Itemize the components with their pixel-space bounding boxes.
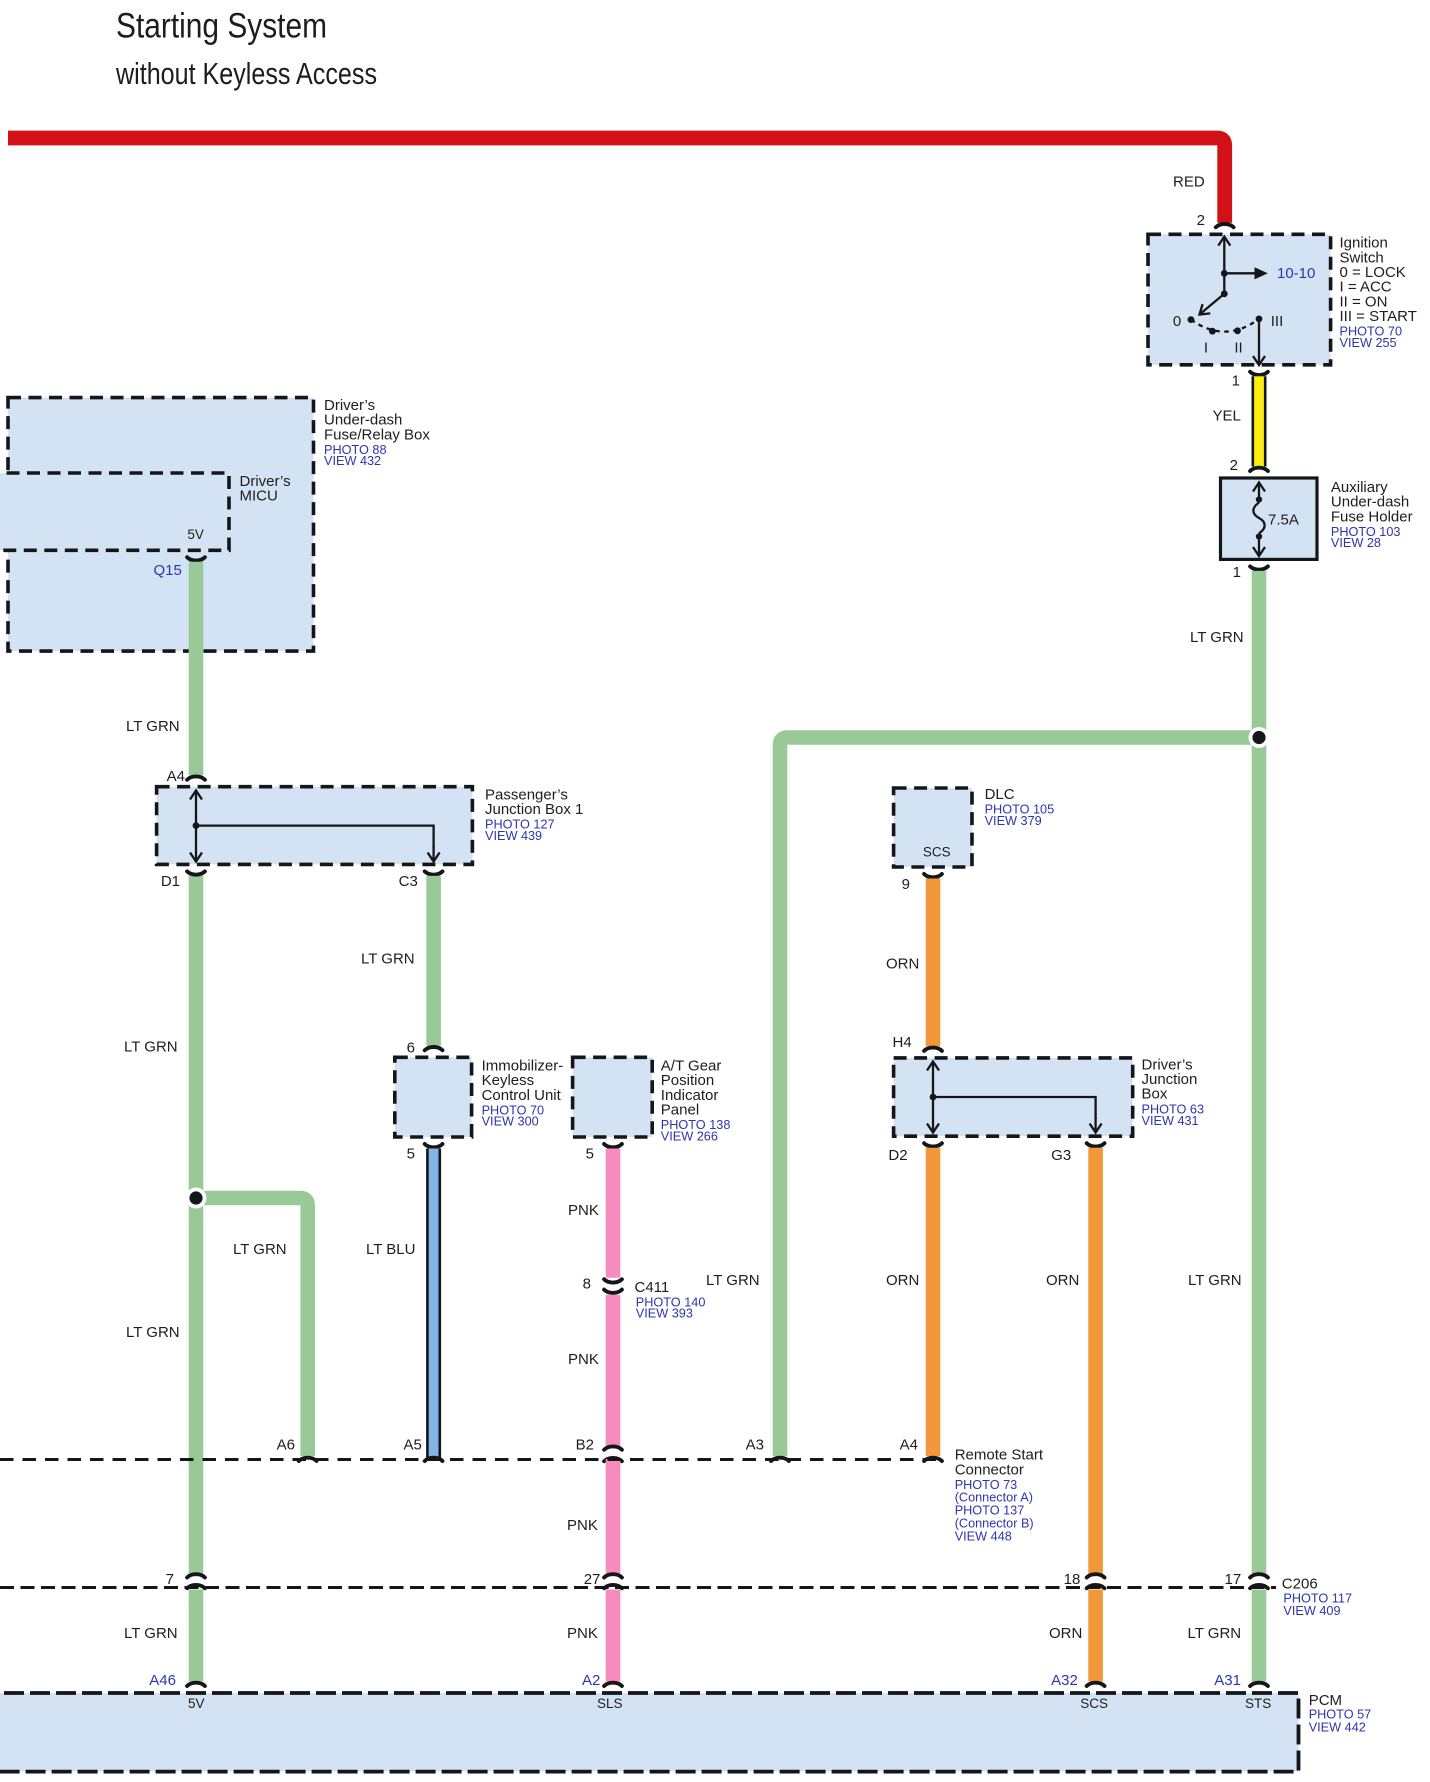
- svg-text:A5: A5: [403, 1437, 421, 1454]
- svg-text:A6: A6: [277, 1437, 295, 1454]
- passenger's junction box 1: [157, 787, 473, 865]
- connector bracket H4: [924, 1048, 942, 1051]
- driver's MICU box: [0, 473, 229, 550]
- connector bracket pin 9: [924, 874, 942, 877]
- svg-text:A4: A4: [167, 768, 185, 785]
- svg-text:18: 18: [1064, 1571, 1081, 1588]
- svg-text:LT BLU: LT BLU: [366, 1241, 415, 1258]
- wire RED battery feed: [8, 138, 1225, 223]
- A/T gear caption: [661, 1058, 731, 1144]
- position 0 contact: [1188, 316, 1195, 323]
- svg-text:C3: C3: [399, 873, 418, 890]
- wire LT GRN branch to A6: [196, 1198, 308, 1456]
- svg-text:SLS: SLS: [597, 1696, 623, 1711]
- svg-text:LT GRN: LT GRN: [706, 1272, 760, 1289]
- svg-text:YEL: YEL: [1213, 407, 1241, 424]
- connector B2 lower bracket: [604, 1458, 622, 1461]
- node: [1221, 290, 1228, 297]
- svg-text:6: 6: [407, 1040, 415, 1057]
- wire to pin 1: [1258, 319, 1260, 365]
- svg-text:G3: G3: [1051, 1147, 1071, 1164]
- fuse/relay box caption: [324, 397, 430, 468]
- connector bracket A31: [1250, 1683, 1268, 1686]
- svg-text:LT GRN: LT GRN: [1190, 629, 1244, 646]
- connector bracket pin 6: [425, 1047, 443, 1050]
- wire ORN (G3 to 18): [1088, 1148, 1103, 1574]
- svg-text:H4: H4: [893, 1034, 912, 1051]
- svg-text:PNK: PNK: [568, 1202, 599, 1219]
- connector bracket A4 remote: [924, 1458, 942, 1461]
- wire LT GRN (D1 to C206 pin 7): [189, 876, 204, 1574]
- connector bracket C3: [425, 871, 443, 874]
- auxiliary under-dash fuse holder box: [1221, 478, 1318, 559]
- svg-text:PNK: PNK: [567, 1625, 598, 1642]
- svg-text:ORN: ORN: [1049, 1625, 1082, 1642]
- connector bracket pin 1 fuse: [1250, 566, 1268, 569]
- svg-text:SCS: SCS: [1080, 1696, 1108, 1711]
- wire PNK (27 to A2): [606, 1590, 621, 1682]
- connector pin 18 upper bracket: [1087, 1574, 1105, 1577]
- svg-text:DLC: DLC: [985, 786, 1015, 803]
- svg-text:LT GRN: LT GRN: [124, 1039, 178, 1056]
- wire YEL: [1253, 376, 1265, 466]
- bus wire to C3: [196, 826, 434, 848]
- bus wire vertical: [195, 791, 197, 826]
- position III contact: [1256, 316, 1263, 323]
- svg-text:5V: 5V: [188, 1696, 205, 1711]
- svg-text:LT GRN: LT GRN: [124, 1625, 178, 1642]
- svg-text:PHOTO 137: PHOTO 137: [955, 1504, 1025, 1518]
- svg-text:VIEW 432: VIEW 432: [324, 454, 381, 468]
- svg-text:A46: A46: [149, 1672, 176, 1689]
- svg-text:Panel: Panel: [661, 1102, 699, 1119]
- fuse holder caption: [1331, 479, 1413, 550]
- wire ORN (DLC to H4): [926, 879, 941, 1047]
- MICU caption: [240, 473, 291, 505]
- bus wire to G3: [933, 1097, 1096, 1119]
- connector C411 lower bracket: [604, 1290, 622, 1293]
- svg-text:7: 7: [166, 1571, 174, 1588]
- svg-text:PNK: PNK: [567, 1517, 598, 1534]
- connector pin 7 upper bracket: [187, 1574, 205, 1577]
- connector bracket D2: [924, 1143, 942, 1146]
- svg-text:Fuse Holder: Fuse Holder: [1331, 508, 1413, 525]
- svg-text:VIEW 409: VIEW 409: [1283, 1604, 1340, 1618]
- svg-text:III = START: III = START: [1340, 308, 1417, 325]
- connector bracket A5: [425, 1458, 443, 1461]
- svg-text:Control Unit: Control Unit: [482, 1087, 562, 1104]
- svg-text:9: 9: [902, 876, 910, 893]
- A/T gear position indicator panel box: [573, 1057, 653, 1137]
- svg-text:PCM: PCM: [1309, 1692, 1342, 1709]
- svg-text:D1: D1: [161, 873, 180, 890]
- connector pin 17 upper bracket: [1250, 1574, 1268, 1577]
- node: [1221, 270, 1228, 277]
- svg-text:(Connector B): (Connector B): [955, 1517, 1034, 1531]
- svg-text:MICU: MICU: [240, 488, 278, 505]
- node: [193, 822, 200, 829]
- wire LT GRN (7 to A46): [189, 1590, 204, 1682]
- connector bracket pin 2 fuse: [1250, 468, 1268, 471]
- DLC caption: [985, 786, 1055, 828]
- connector bracket A46: [187, 1683, 205, 1686]
- connector bracket A3: [771, 1458, 789, 1461]
- connector C206 line: [0, 1586, 1276, 1589]
- svg-text:Starting System: Starting System: [116, 7, 327, 46]
- wire PNK (C411 to B2): [606, 1295, 621, 1446]
- svg-text:27: 27: [584, 1571, 601, 1588]
- detent arc: [1191, 319, 1259, 332]
- svg-text:II: II: [1234, 340, 1242, 357]
- driver's junction box caption: [1142, 1056, 1205, 1128]
- switch wiper arrow: [1200, 294, 1225, 315]
- svg-text:LT GRN: LT GRN: [1188, 1625, 1242, 1642]
- svg-text:A2: A2: [582, 1672, 600, 1689]
- junction box 1 caption: [485, 786, 583, 842]
- bus wire vertical: [932, 1062, 934, 1098]
- wire PNK (B2 to 27): [606, 1459, 621, 1574]
- connector bracket pin 5 AT: [604, 1144, 622, 1147]
- svg-text:SCS: SCS: [923, 845, 951, 860]
- wire ORN (18 to A32): [1088, 1590, 1103, 1682]
- svg-text:VIEW 442: VIEW 442: [1309, 1720, 1366, 1734]
- svg-text:PHOTO 73: PHOTO 73: [955, 1478, 1018, 1492]
- svg-text:ORN: ORN: [886, 955, 919, 972]
- wire LT GRN right main (fuse to C206 pin 17): [1252, 571, 1267, 1574]
- ignition switch caption: [1340, 235, 1417, 350]
- node: [930, 1094, 937, 1101]
- svg-text:LT GRN: LT GRN: [126, 718, 180, 735]
- svg-text:without Keyless Access: without Keyless Access: [115, 56, 377, 91]
- svg-text:Fuse/Relay Box: Fuse/Relay Box: [324, 426, 430, 443]
- svg-text:VIEW 448: VIEW 448: [955, 1529, 1012, 1543]
- wire ORN (D2 to A4): [926, 1148, 941, 1456]
- PCM box: [0, 1693, 1299, 1772]
- C411 caption: [635, 1279, 706, 1321]
- svg-text:ORN: ORN: [1046, 1272, 1079, 1289]
- svg-text:LT GRN: LT GRN: [361, 951, 415, 968]
- svg-text:(Connector A): (Connector A): [955, 1491, 1033, 1505]
- connector bracket Q15: [187, 557, 205, 560]
- svg-text:Q15: Q15: [153, 562, 181, 579]
- driver's under-dash fuse/relay box: [8, 398, 314, 651]
- position II contact: [1234, 327, 1241, 334]
- svg-text:B2: B2: [576, 1437, 594, 1454]
- svg-text:17: 17: [1225, 1571, 1242, 1588]
- connector bracket D1: [187, 871, 205, 874]
- svg-text:III: III: [1271, 313, 1284, 330]
- svg-text:VIEW 431: VIEW 431: [1142, 1114, 1199, 1128]
- connector pin 7 lower bracket: [187, 1585, 205, 1588]
- svg-text:RED: RED: [1173, 174, 1205, 191]
- connector bracket pin 5 immobilizer: [425, 1144, 443, 1147]
- svg-text:C411: C411: [635, 1279, 670, 1296]
- svg-text:A32: A32: [1051, 1672, 1078, 1689]
- svg-text:VIEW 28: VIEW 28: [1331, 536, 1381, 550]
- svg-text:PNK: PNK: [568, 1351, 599, 1368]
- junction node: [1249, 727, 1270, 748]
- wire LT GRN branch to A3: [780, 738, 1259, 1457]
- remote start connector line: [0, 1458, 941, 1461]
- connector pin 27 upper bracket: [604, 1574, 622, 1577]
- connector bracket G3: [1087, 1143, 1105, 1146]
- arrow to 10-10: [1224, 272, 1256, 274]
- svg-text:1: 1: [1233, 564, 1241, 581]
- svg-text:C206: C206: [1282, 1576, 1318, 1593]
- connector B2 upper bracket: [604, 1446, 622, 1449]
- wire LT GRN (C3 to immobilizer pin 6): [426, 876, 441, 1046]
- wire LT GRN (17 to A31): [1252, 1590, 1267, 1682]
- svg-text:LT GRN: LT GRN: [126, 1324, 180, 1341]
- connector pin 17 lower bracket: [1250, 1585, 1268, 1588]
- wire: [1223, 273, 1225, 294]
- connector bracket pin 1: [1250, 372, 1268, 375]
- svg-text:2: 2: [1197, 212, 1205, 229]
- connector bracket A32: [1087, 1683, 1105, 1686]
- svg-text:VIEW 393: VIEW 393: [636, 1307, 693, 1321]
- svg-text:LT GRN: LT GRN: [1188, 1272, 1242, 1289]
- connector bracket A2: [604, 1683, 622, 1686]
- svg-text:1: 1: [1232, 372, 1240, 389]
- ignition switch box: [1148, 234, 1331, 364]
- switch feed wire: [1223, 237, 1225, 274]
- PCM caption: [1309, 1692, 1372, 1735]
- svg-text:STS: STS: [1245, 1696, 1271, 1711]
- svg-text:0: 0: [1173, 313, 1181, 330]
- remote start connector caption: [955, 1446, 1044, 1543]
- immobilizer caption: [482, 1058, 564, 1129]
- svg-text:D2: D2: [888, 1147, 907, 1164]
- connector pin 27 lower bracket: [604, 1585, 622, 1588]
- svg-text:A31: A31: [1214, 1672, 1241, 1689]
- svg-text:PHOTO 57: PHOTO 57: [1309, 1708, 1372, 1722]
- svg-text:VIEW 300: VIEW 300: [482, 1115, 539, 1129]
- svg-text:Connector: Connector: [955, 1462, 1024, 1479]
- svg-text:7.5A: 7.5A: [1268, 512, 1299, 529]
- C206 caption: [1282, 1576, 1352, 1619]
- driver's junction box: [894, 1058, 1133, 1136]
- svg-text:VIEW 379: VIEW 379: [985, 814, 1042, 828]
- svg-text:2: 2: [1230, 457, 1238, 474]
- svg-text:Junction Box 1: Junction Box 1: [485, 801, 583, 818]
- svg-text:10-10: 10-10: [1277, 265, 1315, 282]
- svg-text:Box: Box: [1142, 1086, 1168, 1103]
- junction node (left): [186, 1188, 207, 1209]
- connector bracket pin 2: [1216, 224, 1234, 227]
- svg-text:LT GRN: LT GRN: [233, 1241, 287, 1258]
- svg-text:VIEW 266: VIEW 266: [661, 1129, 718, 1143]
- svg-text:5: 5: [407, 1146, 415, 1163]
- wire LT BLU (pin 5 to A5): [427, 1149, 439, 1459]
- svg-text:I: I: [1204, 340, 1208, 357]
- svg-text:5V: 5V: [187, 527, 204, 542]
- svg-text:VIEW 439: VIEW 439: [485, 829, 542, 843]
- wire PNK (pin 5 to C411): [606, 1149, 621, 1278]
- svg-text:PHOTO 117: PHOTO 117: [1283, 1591, 1352, 1605]
- fuse 7.5A: [1253, 483, 1298, 557]
- wire LT GRN (Q15 to A4): [189, 562, 204, 775]
- svg-text:A3: A3: [746, 1437, 764, 1454]
- position I contact: [1209, 328, 1216, 335]
- connector bracket A4: [187, 776, 205, 779]
- svg-text:ORN: ORN: [886, 1272, 919, 1289]
- connector bracket A6: [299, 1458, 317, 1461]
- svg-text:A4: A4: [900, 1437, 918, 1454]
- svg-text:8: 8: [583, 1276, 591, 1293]
- svg-text:VIEW 255: VIEW 255: [1340, 336, 1397, 350]
- connector C411 upper bracket: [604, 1279, 622, 1282]
- svg-text:5: 5: [586, 1146, 594, 1163]
- DLC box: [894, 788, 972, 867]
- connector pin 18 lower bracket: [1087, 1585, 1105, 1588]
- immobilizer-keyless control unit box: [395, 1057, 472, 1137]
